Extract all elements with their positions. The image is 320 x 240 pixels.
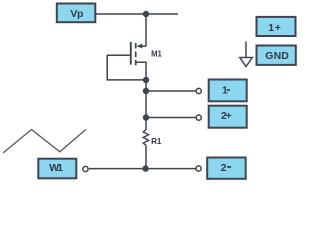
svg-text:R1: R1 [151,137,162,146]
svg-text:2: 2 [221,162,227,174]
svg-text:M1: M1 [151,49,162,58]
svg-text:Vp: Vp [70,8,83,20]
svg-text:2+: 2+ [221,110,232,122]
svg-text:W1: W1 [49,162,63,174]
svg-text:1+: 1+ [268,22,281,34]
svg-text:GND: GND [265,50,289,62]
